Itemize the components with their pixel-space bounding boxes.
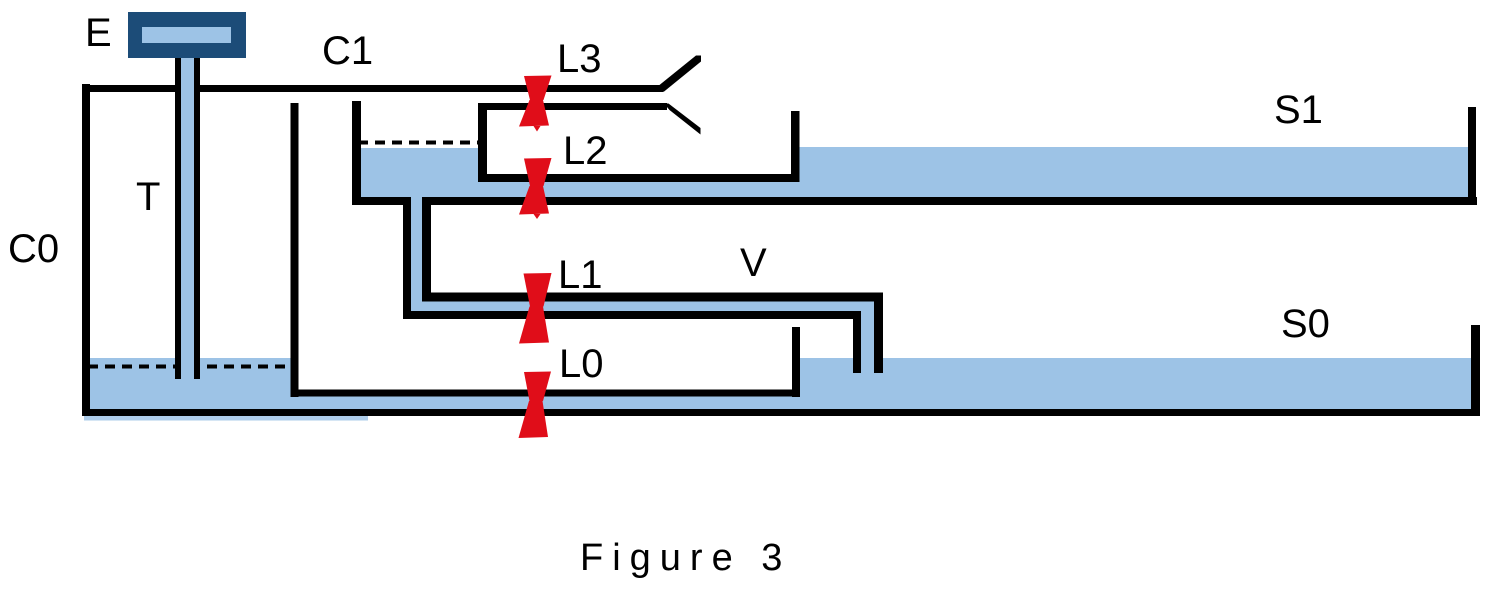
wire bottom long line C0/L0/S0 [82,409,1480,416]
svg-text:S0: S0 [1281,302,1330,346]
water V pipe vertical from C1 [411,196,422,308]
water S0 basin [800,358,1471,409]
svg-text:V: V [740,241,767,285]
wire S1 right wall [1468,107,1476,205]
valve L3 [519,76,552,132]
water V pipe down leg into S0 [861,301,874,371]
svg-text:C0: C0 [8,227,59,271]
water C0 tank [85,358,298,409]
pump E outer block [128,12,246,58]
wire wall W3 (C1 basin right) [478,103,487,182]
wire V pipe outer (left wall, bottom line, down-leg left wall) [407,197,857,373]
wire wall W2 (C1 basin left) [352,101,361,204]
dashed water level line in C1 [358,141,480,145]
water fringe under C0 bottom [84,415,368,421]
pump E inner slot [142,27,231,43]
svg-text:L1: L1 [558,253,603,297]
water L2 channel strip [470,181,800,198]
water V pipe horizontal run [411,301,874,312]
valve L0 [519,372,552,439]
svg-text:S1: S1 [1274,88,1323,132]
dashed water level line in C0 [88,365,291,369]
svg-text:C1: C1 [322,29,373,73]
wire L2 channel top line [481,174,800,182]
water L0 channel strip [292,397,1472,410]
valve L2 [519,158,552,219]
wire S1 left wall [791,111,800,182]
wire funnel bottom diagonal [664,104,701,135]
svg-text:L0: L0 [559,342,604,386]
water S1 basin [798,147,1468,201]
wire top line of C0/C1 [82,85,663,92]
wire S0 right wall [1471,325,1480,416]
water C1 basin [358,148,481,200]
wire V pipe inner (right wall, top line, down-leg right wall) [427,200,879,373]
wire wall W1 (C0 right / shaft left) [291,103,299,397]
wire C0 left wall [82,84,90,415]
wire S0 left wall [792,327,800,397]
wire C1/L2/S1 bottom long line [422,197,1477,205]
wire L3 channel bottom line [481,103,667,110]
tube T left wall [175,55,181,379]
wire L0 channel top line [291,390,800,397]
tube T right wall [194,55,200,379]
svg-text:L2: L2 [563,129,608,173]
wire funnel top diagonal [659,56,701,93]
valve L1 [519,273,552,344]
wire C1 basin bottom left part [352,197,411,205]
svg-text:E: E [85,11,112,55]
tube T water column [181,55,194,379]
svg-text:T: T [136,175,160,219]
svg-text:L3: L3 [557,37,602,81]
svg-text:Figure 3: Figure 3 [580,537,791,579]
